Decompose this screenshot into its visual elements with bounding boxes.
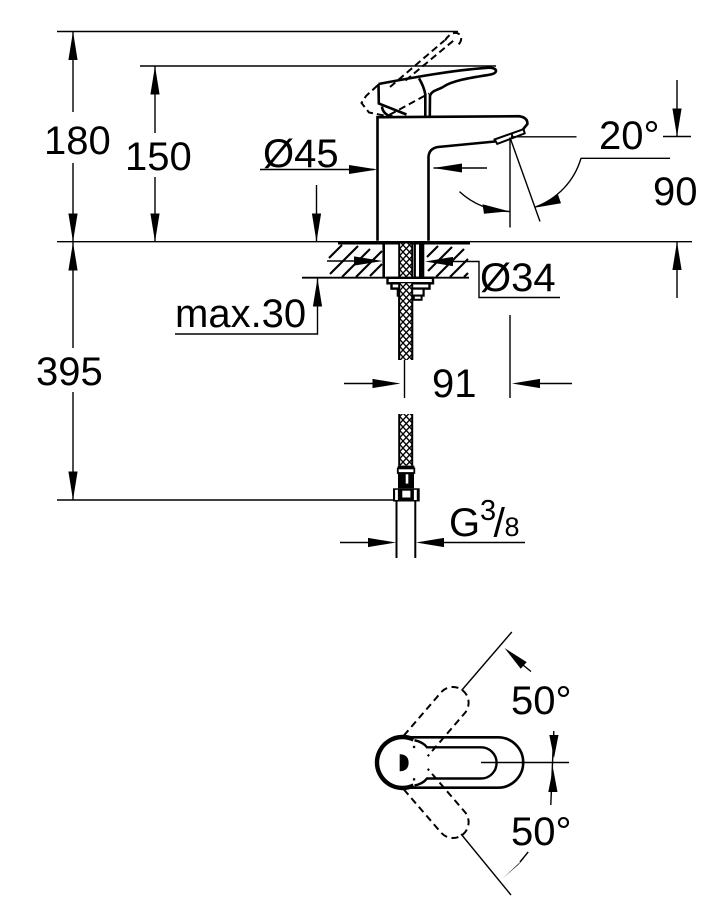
svg-text:395: 395	[36, 350, 103, 394]
arrow 150 top	[150, 66, 159, 95]
395 bottom extension line	[57, 499, 393, 501]
hose centerline	[404, 360, 406, 398]
20deg arc right	[535, 158, 581, 207]
washer below counter	[388, 278, 434, 284]
hose nut	[393, 488, 420, 501]
slab bottom line	[302, 277, 469, 279]
svg-text:180: 180	[44, 119, 111, 163]
svg-text:20°: 20°	[599, 114, 660, 158]
braided hose upper segment	[399, 244, 412, 361]
svg-text:91: 91	[432, 362, 477, 406]
hatch right	[427, 246, 468, 277]
arrow O45 left (points right at body)	[349, 165, 378, 174]
50deg line lower	[461, 834, 511, 895]
spout tip extension line	[511, 136, 577, 138]
counter top line	[57, 241, 692, 243]
90 dimension bottom	[676, 242, 678, 298]
50deg line upper	[462, 632, 512, 691]
svg-text:Ø34: Ø34	[480, 256, 556, 300]
bowtie arrows at centerline	[551, 731, 554, 805]
arrow 180 top	[68, 32, 77, 61]
dashed handle rotated down	[404, 769, 469, 838]
label O34 with leader elbow	[453, 262, 560, 298]
max30 lower arrow with elbow to label	[175, 278, 318, 334]
braid over step	[399, 283, 412, 360]
svg-text:50°: 50°	[511, 679, 572, 723]
91 right extension line	[509, 315, 511, 398]
hose ferrule	[398, 466, 415, 469]
cartridge D mark	[400, 754, 409, 771]
20deg arc left	[460, 192, 511, 212]
lower 50 arc arrow	[502, 858, 524, 879]
extension line (150)	[140, 65, 496, 67]
O34 right arrow	[425, 257, 453, 266]
handle outer outline	[403, 737, 523, 787]
dimension line 180/395	[72, 32, 74, 113]
90 dimension top	[676, 80, 678, 137]
slab top thick segment	[338, 241, 470, 244]
lever handle	[379, 68, 497, 117]
arrow O45 right (points left at body)	[434, 167, 488, 169]
nut below washer	[392, 283, 430, 288]
svg-text:50°: 50°	[511, 810, 572, 854]
body circle	[377, 737, 414, 788]
threaded tube G3/8	[396, 502, 398, 559]
handle inner outline	[415, 740, 497, 785]
arrow 395 bottom	[68, 472, 77, 501]
arrow 180 bottom	[68, 214, 77, 242]
screw dots	[413, 746, 415, 748]
dashed handle rotated up	[404, 687, 469, 756]
vertical line from spout tip	[509, 138, 511, 228]
svg-text:90: 90	[653, 170, 698, 214]
svg-text:G: G	[449, 501, 480, 545]
extension line top (180)	[57, 31, 458, 33]
lever neck left	[419, 78, 425, 116]
braided hose lower segment	[399, 414, 412, 466]
91 dimension	[344, 383, 373, 385]
mounting sleeve	[382, 244, 385, 278]
O34 left arrow	[327, 260, 354, 262]
lever pivot arc	[382, 107, 393, 117]
dashed raised handle line 2	[390, 41, 445, 88]
arrow 150 bottom	[150, 214, 159, 242]
upper 50 arc arrow	[505, 648, 527, 669]
hose barrel	[398, 473, 414, 488]
dashed handle base	[362, 86, 430, 117]
max30 upper arrow line	[316, 185, 318, 242]
slanted 20 deg line	[510, 138, 540, 222]
arrow 395 top	[68, 242, 77, 270]
hatch left	[329, 245, 382, 277]
G3/8 dimension	[340, 542, 369, 544]
dashed handle tip	[445, 33, 461, 46]
svg-text:8: 8	[505, 512, 520, 542]
centerline	[481, 762, 569, 764]
lower step	[398, 289, 424, 296]
lever front face	[379, 84, 407, 115]
dashed raised handle line 1	[406, 39, 457, 81]
aerator	[495, 129, 525, 144]
dimension line 150	[154, 66, 156, 133]
svg-text:max.30: max.30	[175, 292, 306, 336]
svg-text:150: 150	[125, 135, 192, 179]
spout underside	[429, 142, 496, 241]
body outline	[378, 116, 528, 241]
